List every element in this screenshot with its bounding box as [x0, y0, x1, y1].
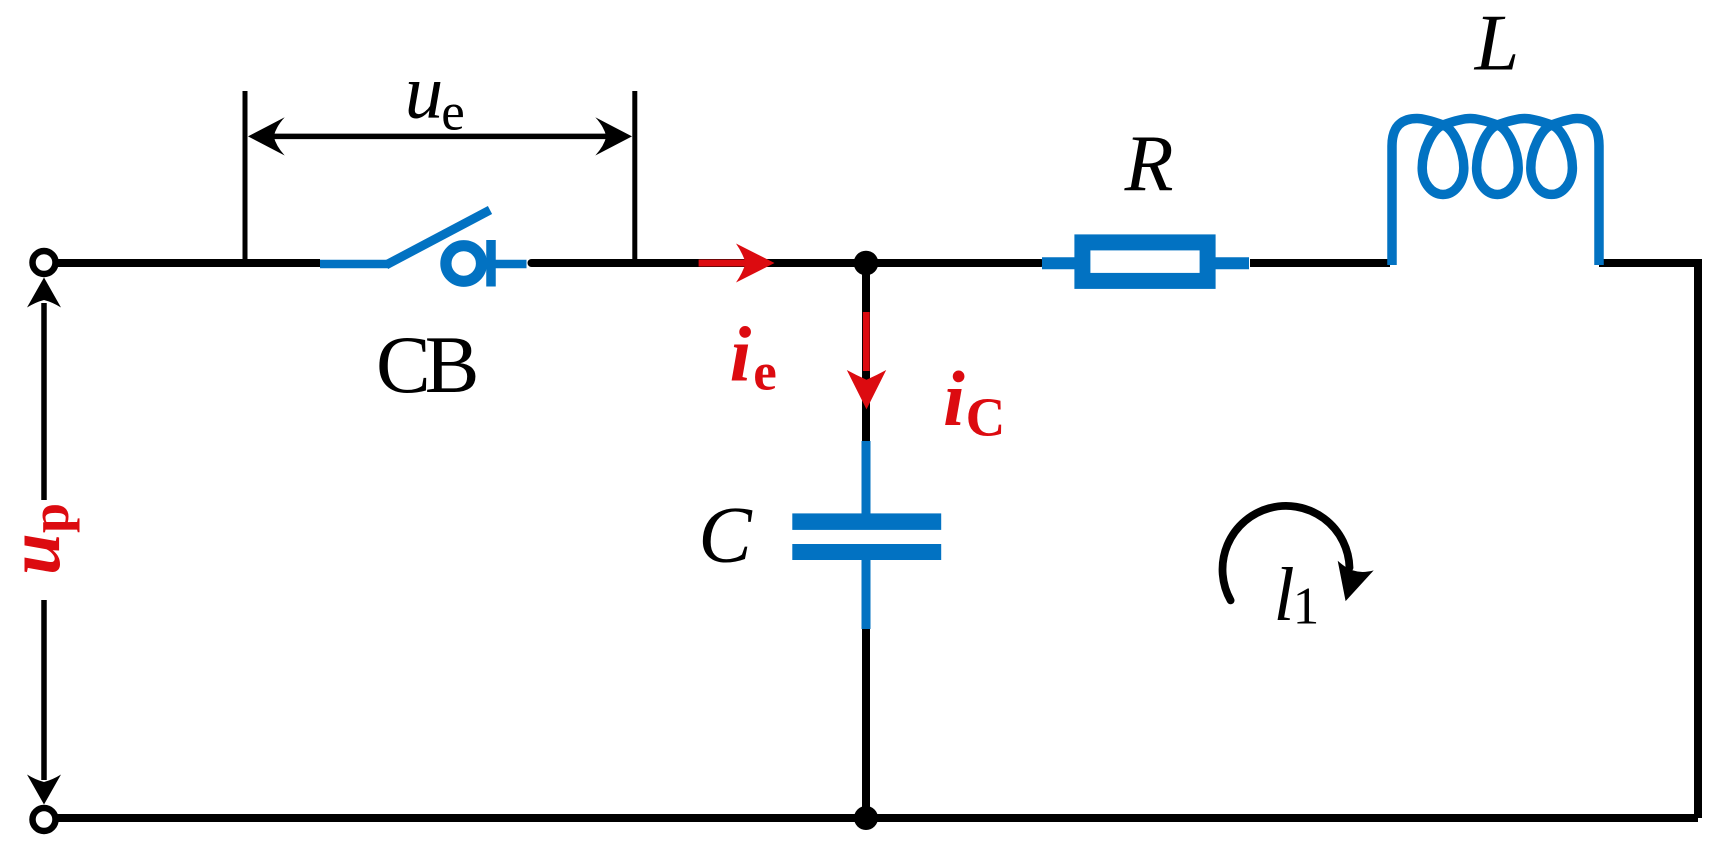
svg-text:l: l	[1273, 553, 1294, 637]
svg-text:R: R	[1124, 120, 1174, 208]
svg-text:1: 1	[1293, 578, 1320, 636]
svg-text:CB: CB	[376, 319, 476, 410]
svg-text:L: L	[1474, 0, 1520, 88]
svg-text:p: p	[20, 503, 80, 533]
svg-text:u: u	[405, 49, 444, 135]
svg-text:i: i	[943, 355, 965, 442]
svg-text:u: u	[0, 533, 76, 575]
svg-text:i: i	[730, 311, 752, 398]
svg-text:C: C	[698, 492, 753, 580]
svg-text:e: e	[441, 84, 465, 142]
svg-text:C: C	[966, 387, 1006, 448]
svg-text:e: e	[753, 344, 777, 402]
